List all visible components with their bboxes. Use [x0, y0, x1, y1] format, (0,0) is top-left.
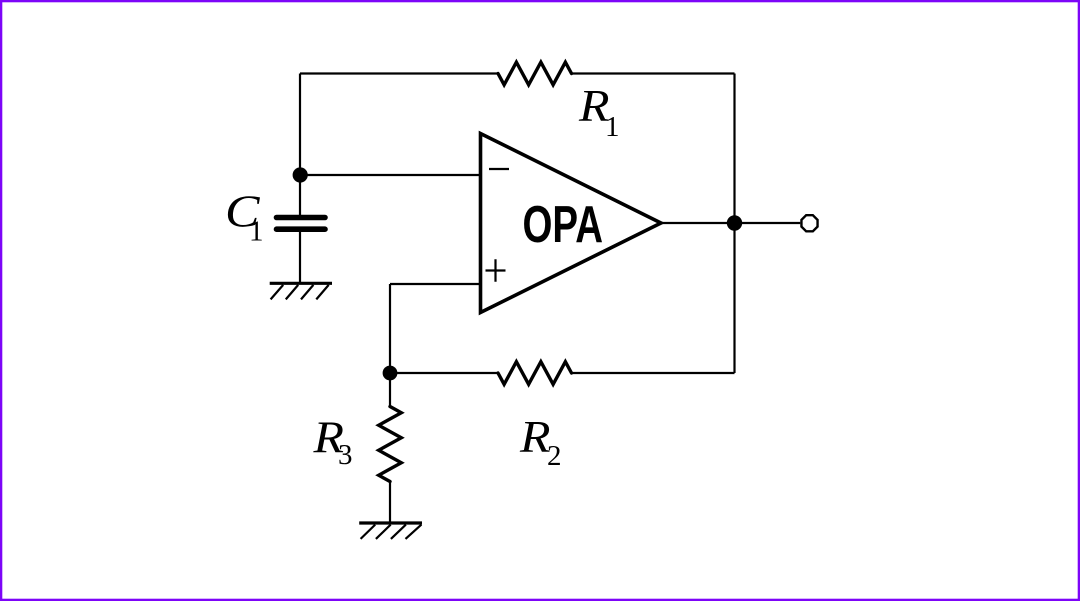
wire top-left segment — [300, 72, 498, 74]
resistor R3 — [379, 407, 402, 482]
svg-text:1: 1 — [605, 111, 620, 143]
op-amp minus sign — [489, 168, 509, 170]
svg-text:2: 2 — [547, 440, 562, 472]
wire noninverting input — [390, 283, 481, 285]
wire bottom-left segment — [390, 372, 498, 374]
op-amp U1 triangle — [481, 134, 662, 313]
output terminal — [801, 215, 817, 231]
resistor R1 — [498, 62, 572, 85]
wire R3 bottom lead — [389, 482, 391, 524]
svg-text:OPA: OPA — [523, 196, 604, 254]
wire left vertical — [299, 74, 301, 176]
wire R3 top lead — [389, 373, 391, 407]
op-amp plus sign — [486, 259, 506, 282]
node junction at R3/noninverting — [383, 366, 398, 381]
svg-text:R: R — [519, 411, 551, 462]
ground under R3 — [359, 523, 422, 539]
wire noninverting riser — [389, 284, 391, 373]
node junction at C1/inverting — [293, 167, 308, 182]
wire inverting input — [300, 174, 481, 176]
capacitor C1 — [277, 218, 326, 230]
svg-text:3: 3 — [338, 439, 353, 471]
wire C1 bottom lead — [299, 232, 301, 284]
svg-text:1: 1 — [249, 216, 264, 248]
node junction at output — [727, 215, 742, 230]
wire output — [661, 222, 800, 224]
wire C1 top lead — [299, 175, 301, 215]
wire bottom-right segment — [572, 372, 735, 374]
resistor R2 — [498, 362, 572, 385]
wire top-right segment — [572, 72, 735, 74]
ground under C1 — [270, 283, 332, 299]
wire right vertical — [733, 74, 735, 374]
